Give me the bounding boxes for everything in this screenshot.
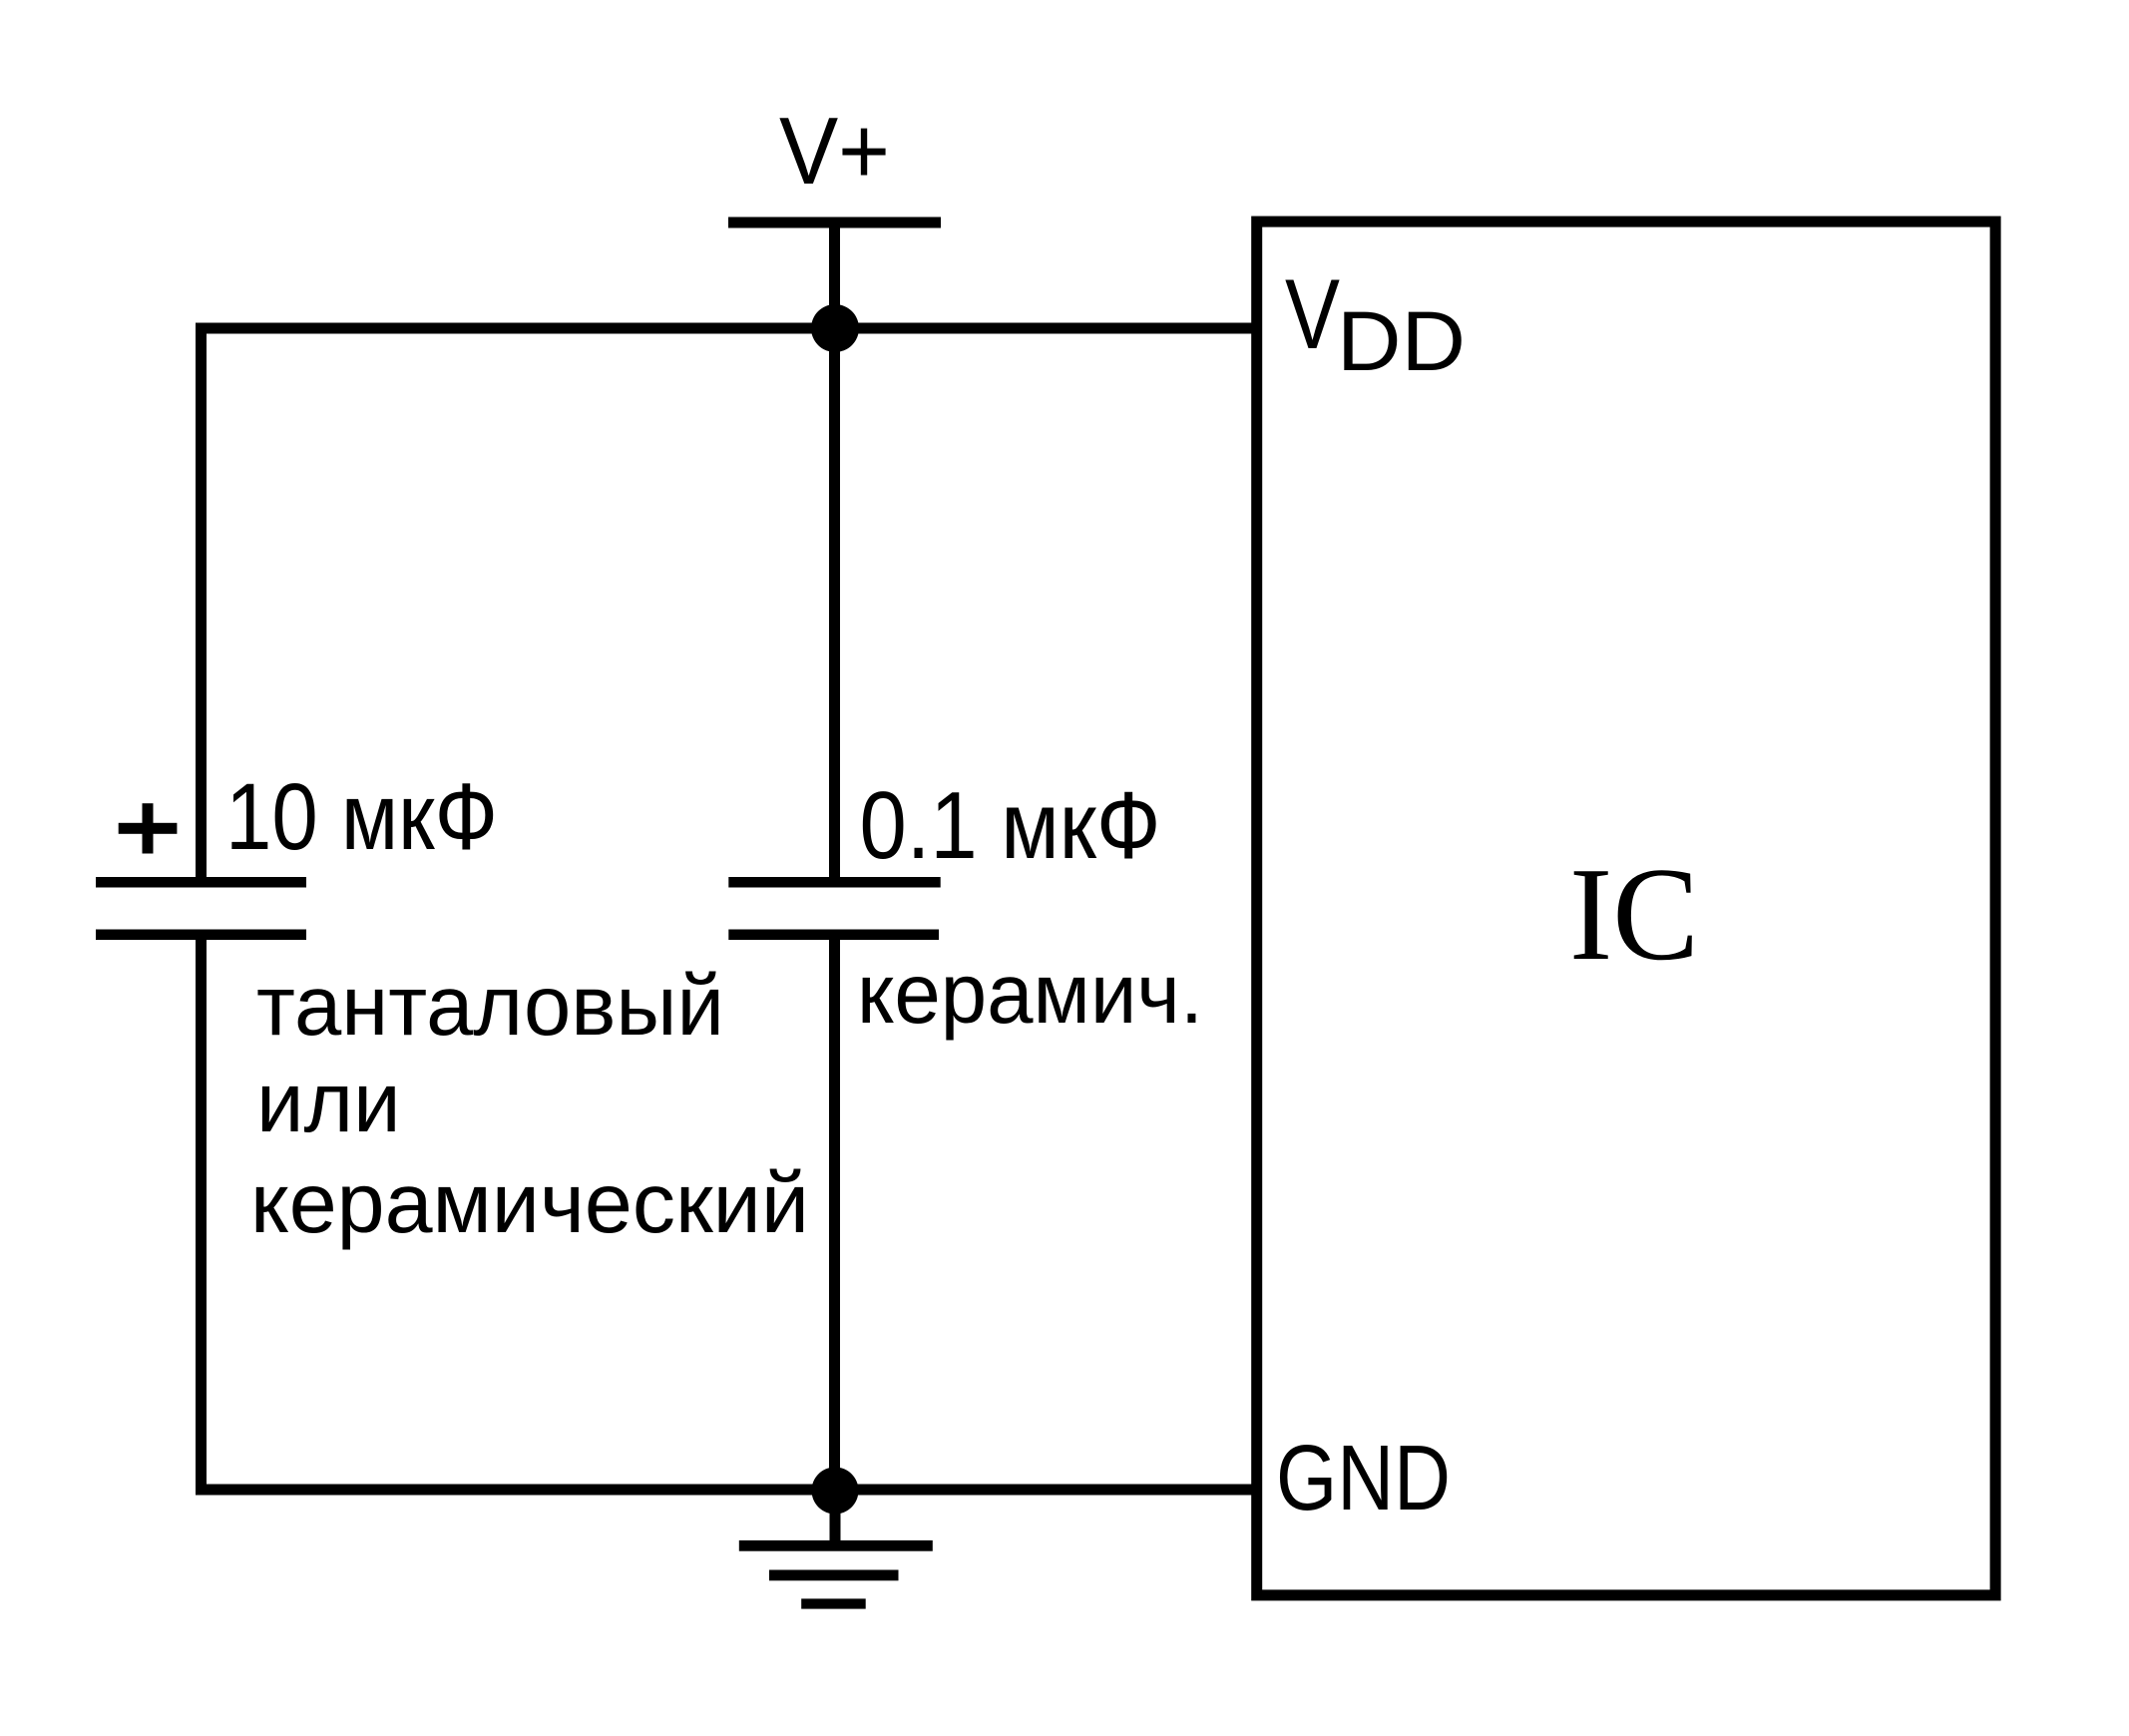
capacitor C1 bottom plate (96, 930, 306, 941)
svg-text:танталовый: танталовый (256, 959, 724, 1054)
wire V+ stub down to node A and capacitor C2 (829, 227, 840, 878)
capacitor C1 plus polarity sign (119, 803, 178, 853)
wire left vertical upper (196, 323, 207, 883)
svg-text:10 мкФ: 10 мкФ (225, 764, 498, 870)
svg-text:керамический: керамический (250, 1156, 809, 1251)
capacitor C1 type label (250, 959, 809, 1251)
svg-text:0.1 мкФ: 0.1 мкФ (860, 772, 1161, 879)
node A junction dot (811, 304, 859, 352)
wire bottom rail (196, 1485, 1262, 1496)
wire ground stub (830, 1491, 841, 1545)
svg-text:или: или (256, 1056, 401, 1150)
svg-text:GND: GND (1276, 1426, 1451, 1529)
svg-text:IC: IC (1569, 840, 1699, 988)
capacitor C2 top plate (728, 877, 940, 888)
capacitor C2 bottom plate (728, 930, 939, 941)
wire top rail (196, 323, 1262, 334)
svg-text:V+: V+ (779, 98, 890, 205)
IC pin label VDD (1285, 258, 1466, 388)
wire middle vertical lower (829, 934, 840, 1490)
svg-text:DD: DD (1337, 294, 1466, 388)
svg-text:керамич.: керамич. (857, 947, 1203, 1042)
ground symbol (739, 1540, 933, 1609)
power symbol V+ bar (728, 217, 941, 228)
IC box U1 (1257, 221, 1995, 1595)
svg-text:V: V (1285, 258, 1340, 369)
capacitor C1 top plate (96, 877, 306, 888)
node B junction dot (812, 1468, 859, 1515)
wire left vertical lower (196, 934, 207, 1490)
